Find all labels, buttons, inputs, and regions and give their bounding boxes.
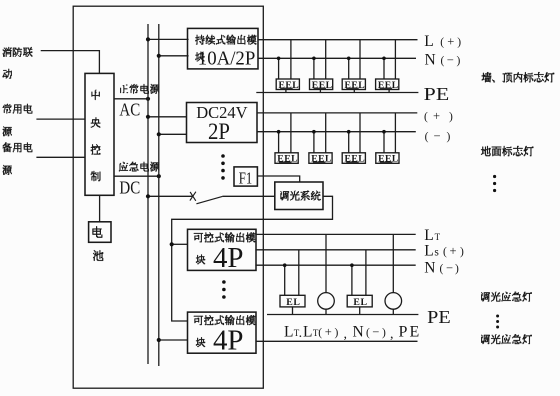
junction: DC bus tap (157, 54, 161, 58)
svg-text:): ) (457, 37, 461, 49)
label: dimmable emergency luminaires 2 (481, 335, 489, 344)
svg-text:,: , (344, 327, 348, 342)
svg-text:P: P (399, 324, 408, 341)
wire: drop from Ls(+) to EL luminaire 2 (365, 250, 367, 295)
wire: drop from (+) to floor EEL sign 2 (325, 113, 327, 153)
junction: DC bus tap2 (157, 132, 161, 136)
svg-text:T: T (435, 232, 441, 242)
svg-text:EEL: EEL (312, 80, 333, 91)
svg-text:): ) (455, 263, 459, 275)
wire: normal supply input (36, 118, 85, 120)
label: emergency power (yingji dianyuan) (119, 162, 128, 172)
svg-text:L: L (303, 324, 312, 341)
luminaire: EEL floor sign 1 (275, 153, 298, 164)
junction: AC bus tap for dimmer (146, 194, 150, 198)
junction: (-) tap for floor EEL sign 3 (347, 130, 351, 134)
svg-text:EEL: EEL (345, 80, 366, 91)
wire: drop from L(+) to EEL sign 2 (row1) (325, 40, 327, 79)
svg-text:E: E (410, 324, 420, 341)
luminaire: EEL exit sign 1 wall/ceiling (276, 79, 299, 90)
svg-text:4P: 4P (213, 326, 244, 357)
svg-text:N: N (424, 260, 435, 277)
svg-text:PE: PE (427, 307, 451, 327)
luminaire: EEL exit sign 4 wall/ceiling (376, 79, 399, 90)
label: normal mains supply (changyong dianyuan) (3, 104, 12, 114)
ellipsis: further output modules (221, 154, 225, 158)
wire: PE stub of lamp 2 (392, 309, 394, 314)
block: continuous-type output module 10A/2P (chixushi shuchu mokuai) (188, 28, 259, 69)
luminaire: EEL exit sign 2 wall/ceiling (310, 79, 333, 90)
luminaire: EEL floor sign 4 (376, 153, 399, 164)
svg-text:F1: F1 (239, 168, 253, 187)
svg-text:DC: DC (119, 178, 140, 198)
block: fuse F1 (234, 167, 257, 186)
junction: N(-) tap for EEL sign 4 (382, 57, 386, 61)
wire: drop from (+) to floor EEL sign 3 (359, 113, 361, 153)
wire: line N(-) bottom (255, 264, 415, 266)
svg-text:EEL: EEL (311, 154, 332, 165)
block: central controller (zhongyang kongzhi) (85, 73, 114, 195)
junction: N(-) tap for EEL sign 1 (277, 57, 281, 61)
svg-text:PE: PE (424, 84, 450, 104)
svg-text:+: + (450, 244, 457, 258)
svg-text:(: ( (440, 37, 444, 49)
wire: line (-) (257, 131, 416, 133)
svg-text:N: N (353, 324, 364, 341)
svg-text:(: ( (440, 263, 444, 275)
svg-text:s: s (434, 246, 439, 258)
switch: dimmer supply disconnect blade (196, 196, 222, 203)
junction: AC bus tap (146, 37, 150, 41)
block: controllable output module 4P no.1 (kekongshi shuchu mokuai) (188, 229, 257, 270)
svg-text:(: ( (425, 131, 429, 143)
luminaire: EEL floor sign 2 (309, 153, 332, 164)
svg-text:(: ( (318, 327, 322, 339)
wire: fire linkage input to central controller top (41, 51, 100, 74)
wire: line (+) (257, 112, 417, 114)
svg-text:): ) (460, 246, 464, 258)
svg-text:EEL: EEL (378, 80, 399, 91)
svg-text:): ) (335, 327, 339, 339)
enclosure: central power supply cabinet outline (73, 6, 263, 388)
wire: dimming control loop to controllable modules (172, 196, 333, 321)
svg-text:2P: 2P (208, 119, 230, 144)
wire: standby supply input (36, 156, 85, 158)
wire: drop from Ls(+) to EL luminaire 1 (298, 250, 300, 295)
svg-text:(: ( (441, 55, 445, 67)
svg-text:+: + (447, 35, 454, 49)
junction: N(-) tap for EL 1 (283, 263, 287, 267)
lamp: dimmable emergency lamp 2 (385, 293, 402, 310)
luminaire: EL emergency luminaire 1 (280, 295, 305, 307)
wire: DC bus to controllable module 2 (159, 339, 188, 341)
junction: (-) tap for floor EEL sign 2 (312, 130, 316, 134)
svg-text:−: − (434, 129, 441, 143)
wire: PE stub of EEL sign 1 (285, 90, 287, 93)
wire: drop from L(+) to EEL sign 3 (row1) (359, 40, 361, 79)
wire: drop from Lt to dimmable lamp 1 (325, 234, 327, 292)
wire: PE stub of EL 2 (359, 307, 361, 315)
bus: AC distribution riser (147, 24, 149, 364)
svg-text:EL: EL (286, 297, 300, 308)
wire: PE stub of EEL sign 3 (353, 90, 355, 93)
junction: dimming loop tap (170, 242, 174, 246)
wire: drop from (+) to floor EEL sign 1 (290, 113, 292, 153)
wire: drop from L(+) to EEL sign 1 (row1) (290, 40, 292, 79)
junction: (-) tap for floor EEL sign 1 (277, 130, 281, 134)
svg-text:L: L (424, 33, 433, 50)
wire: line N(-) (258, 57, 416, 59)
wire: line L(+) (258, 39, 418, 41)
svg-text:(: ( (366, 327, 370, 339)
svg-text:EEL: EEL (378, 154, 399, 165)
wire: drop from N(-) to EEL sign 4 (row1) (383, 58, 385, 79)
label: normal power (zhengchang dianyuan) (120, 85, 128, 93)
wire: drop from N(-) to EL luminaire 1 (284, 265, 286, 295)
svg-text:L: L (424, 243, 433, 260)
label: wall and ceiling mounted sign luminaires (482, 72, 491, 82)
wire: PE stub of EEL sign 4 (388, 90, 390, 93)
svg-text:−: − (372, 325, 379, 339)
wire: line Ls(+) (255, 249, 415, 251)
wire: drop from (-) to floor EEL sign 2 (313, 132, 315, 153)
block: dimming system (tiaoguang xitong) (275, 182, 323, 210)
wire: drop from Lt to dimmable lamp 2 (392, 234, 394, 292)
wire: dimming branch to controllable module 1 (172, 243, 188, 245)
wire: F1 to dimming system (257, 176, 299, 182)
wire: drop from (-) to floor EEL sign 1 (278, 132, 280, 153)
label: floor-mounted sign luminaires (481, 146, 490, 156)
junction: (-) tap for floor EEL sign 4 (382, 130, 386, 134)
junction: AC bus tap2 (146, 115, 150, 119)
wire: DC feed from controller to DC bus (114, 175, 159, 177)
svg-text:+: + (433, 109, 440, 123)
wire: PE stub of lamp 1 (325, 309, 327, 314)
junction: AC feed on AC bus (146, 97, 150, 101)
svg-text:EEL: EEL (277, 154, 298, 165)
wire: switch to dimming system (222, 195, 274, 197)
svg-text:(: ( (443, 246, 447, 258)
block: battery (dianchi) (89, 222, 111, 243)
wire: protective earth PE (256, 92, 418, 94)
wire: AC feed from controller to AC bus (114, 98, 148, 100)
luminaire: EEL floor sign 3 (342, 153, 365, 164)
svg-text:): ) (382, 327, 386, 339)
svg-text:10A/2P: 10A/2P (198, 48, 256, 70)
svg-text:EEL: EEL (279, 80, 300, 91)
wire: drop from (-) to floor EEL sign 4 (383, 132, 385, 153)
svg-text:.: . (299, 326, 303, 341)
luminaire: EEL exit sign 3 wall/ceiling (342, 79, 365, 90)
wire: controller to battery (99, 195, 101, 222)
svg-text:−: − (446, 261, 453, 275)
label: standby supply (beiyong dianyuan) (3, 142, 12, 152)
junction: DC feed on DC bus (157, 174, 161, 178)
block: controllable output module 4P no.2 (188, 312, 257, 353)
junction: N(-) tap for EL 2 (350, 263, 354, 267)
wire: drop from (+) to floor EEL sign 4 (394, 113, 396, 153)
svg-text:4P: 4P (213, 243, 244, 274)
label: fire-alarm linkage (xiaofang liandong) (3, 47, 12, 57)
wire: line Lt (255, 233, 415, 235)
junction: DC bus tap3 (157, 338, 161, 342)
wire: protective earth PE bottom (267, 314, 418, 316)
wire: drop from N(-) to EEL sign 3 (row1) (348, 58, 350, 79)
lamp: dimmable emergency lamp 1 (318, 293, 335, 310)
svg-text:N: N (425, 51, 436, 68)
wire: module 2 output feeder (256, 340, 418, 342)
wire: AC bus to switch (148, 195, 193, 197)
junction: N(-) tap for EEL sign 2 (312, 57, 316, 61)
svg-text:L: L (284, 324, 293, 341)
svg-text:): ) (449, 111, 453, 123)
svg-text:AC: AC (119, 100, 140, 120)
wire: DC bus to DC24V module (159, 133, 187, 135)
ellipsis: more dimmable circuits (496, 315, 499, 318)
wire: PE stub of EL 1 (292, 307, 294, 315)
svg-text:−: − (447, 53, 454, 67)
svg-text:+: + (325, 325, 332, 339)
svg-text:EL: EL (353, 297, 367, 308)
svg-text:,: , (390, 327, 394, 342)
wire: drop from N(-) to EEL sign 2 (row1) (313, 58, 315, 79)
wire: drop from N(-) to EEL sign 1 (row1) (278, 58, 280, 79)
svg-text:(: ( (424, 111, 428, 123)
wire: AC bus to DC24V module (148, 116, 187, 118)
ellipsis: more controllable modules (222, 280, 226, 284)
junction: N(-) tap for EEL sign 3 (347, 57, 351, 61)
bus: DC distribution riser (158, 24, 160, 366)
wire: PE stub of EEL sign 2 (319, 90, 321, 93)
luminaire: EL emergency luminaire 2 (347, 295, 372, 307)
svg-text:EEL: EEL (345, 154, 366, 165)
ellipsis: more floor sign circuits (493, 175, 496, 178)
wire: drop from (-) to floor EEL sign 3 (348, 132, 350, 153)
svg-text:): ) (457, 55, 461, 67)
wire: drop from N(-) to EL luminaire 2 (351, 265, 353, 295)
wire: AC bus to continuous module (148, 38, 189, 40)
svg-text:): ) (447, 131, 451, 143)
label: dimmable emergency luminaires 1 (481, 292, 489, 301)
wire: drop from L(+) to EEL sign 4 (row1) (394, 40, 396, 79)
block: DC24V 2P output module (187, 103, 258, 143)
wire: DC bus to continuous module (159, 55, 189, 57)
switch: contact cross marker (190, 192, 196, 201)
